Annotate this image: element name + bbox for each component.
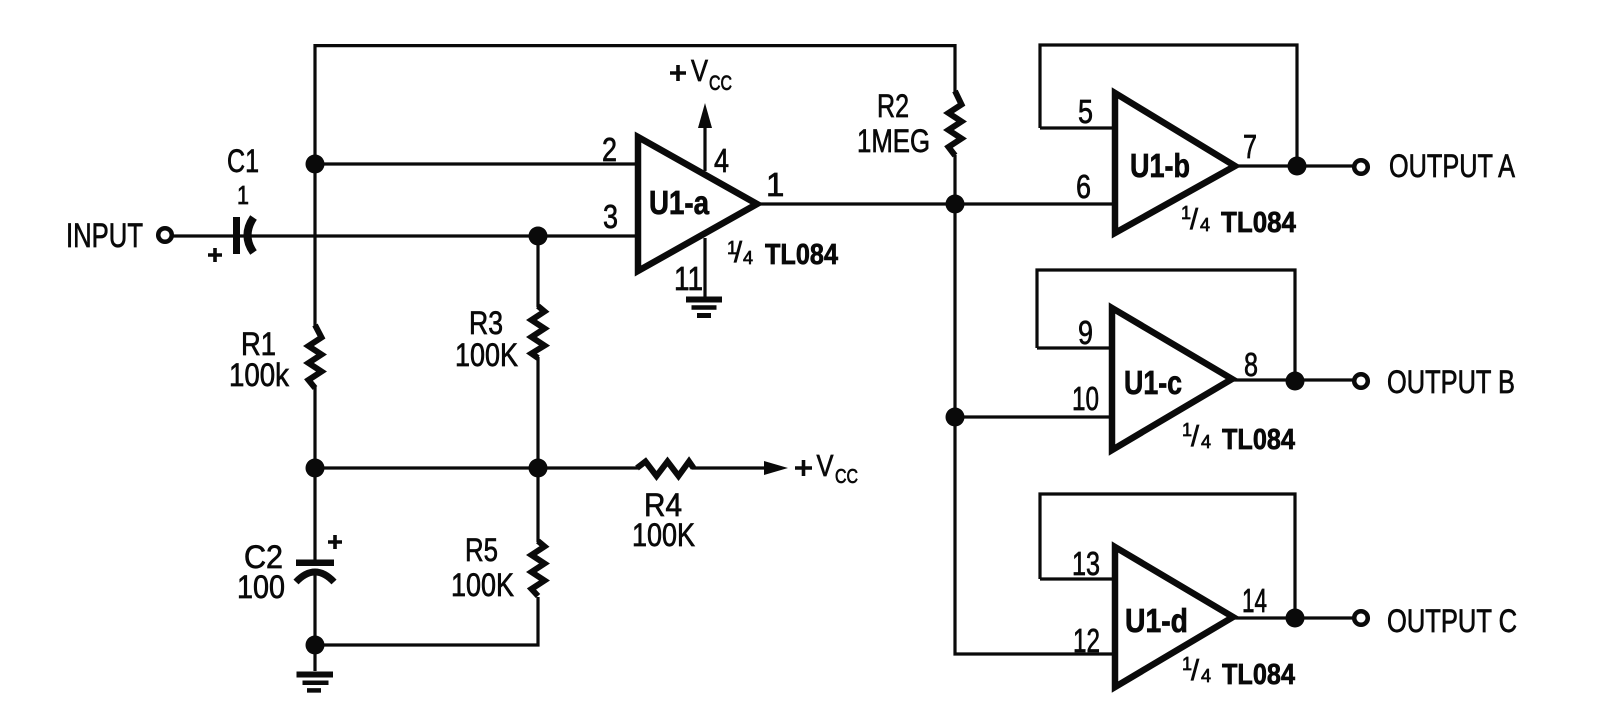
svg-text:14: 14 xyxy=(1242,582,1267,619)
svg-text:V: V xyxy=(691,53,708,88)
svg-text:U1-b: U1-b xyxy=(1130,147,1190,184)
svg-text:R2: R2 xyxy=(877,88,909,124)
svg-text:4: 4 xyxy=(1200,215,1210,235)
svg-text:1: 1 xyxy=(766,166,784,203)
svg-text:U1-d: U1-d xyxy=(1125,602,1188,639)
svg-text:TL084: TL084 xyxy=(1222,659,1295,691)
svg-text:7: 7 xyxy=(1243,128,1257,165)
svg-text:100: 100 xyxy=(237,569,285,605)
svg-text:12: 12 xyxy=(1073,622,1100,659)
svg-text:TL084: TL084 xyxy=(1222,424,1295,456)
svg-text:100K: 100K xyxy=(451,567,514,603)
svg-text:8: 8 xyxy=(1244,346,1258,383)
svg-text:OUTPUT C: OUTPUT C xyxy=(1387,603,1517,639)
svg-text:INPUT: INPUT xyxy=(66,217,143,255)
svg-text:6: 6 xyxy=(1076,168,1091,205)
svg-text:TL084: TL084 xyxy=(765,239,838,271)
svg-text:OUTPUT B: OUTPUT B xyxy=(1387,364,1515,400)
svg-text:3: 3 xyxy=(603,198,618,235)
svg-text:U1-a: U1-a xyxy=(649,184,710,221)
svg-text:CC: CC xyxy=(709,72,732,95)
svg-text:100K: 100K xyxy=(632,517,695,553)
svg-text:V: V xyxy=(817,448,834,483)
svg-text:11: 11 xyxy=(674,260,703,297)
svg-text:OUTPUT A: OUTPUT A xyxy=(1389,148,1516,184)
svg-text:4: 4 xyxy=(743,248,753,268)
svg-text:2: 2 xyxy=(602,131,617,168)
svg-text:C1: C1 xyxy=(227,143,259,179)
svg-text:100K: 100K xyxy=(455,337,518,373)
svg-text:/: / xyxy=(1191,655,1200,687)
svg-text:/: / xyxy=(1191,421,1200,453)
svg-text:100k: 100k xyxy=(229,357,290,393)
svg-text:CC: CC xyxy=(835,466,858,488)
svg-text:R5: R5 xyxy=(465,532,498,568)
svg-text:5: 5 xyxy=(1078,93,1093,130)
svg-text:/: / xyxy=(1190,204,1199,236)
svg-text:/: / xyxy=(734,237,743,269)
svg-text:9: 9 xyxy=(1078,314,1093,351)
svg-text:13: 13 xyxy=(1072,545,1100,582)
svg-text:1MEG: 1MEG xyxy=(857,123,930,159)
svg-text:4: 4 xyxy=(1201,666,1211,686)
svg-text:U1-c: U1-c xyxy=(1124,364,1182,401)
svg-text:1: 1 xyxy=(237,180,249,210)
svg-text:TL084: TL084 xyxy=(1221,207,1296,239)
svg-text:R3: R3 xyxy=(469,305,503,341)
svg-text:4: 4 xyxy=(714,142,729,179)
svg-text:10: 10 xyxy=(1072,380,1099,417)
svg-text:4: 4 xyxy=(1201,432,1211,452)
